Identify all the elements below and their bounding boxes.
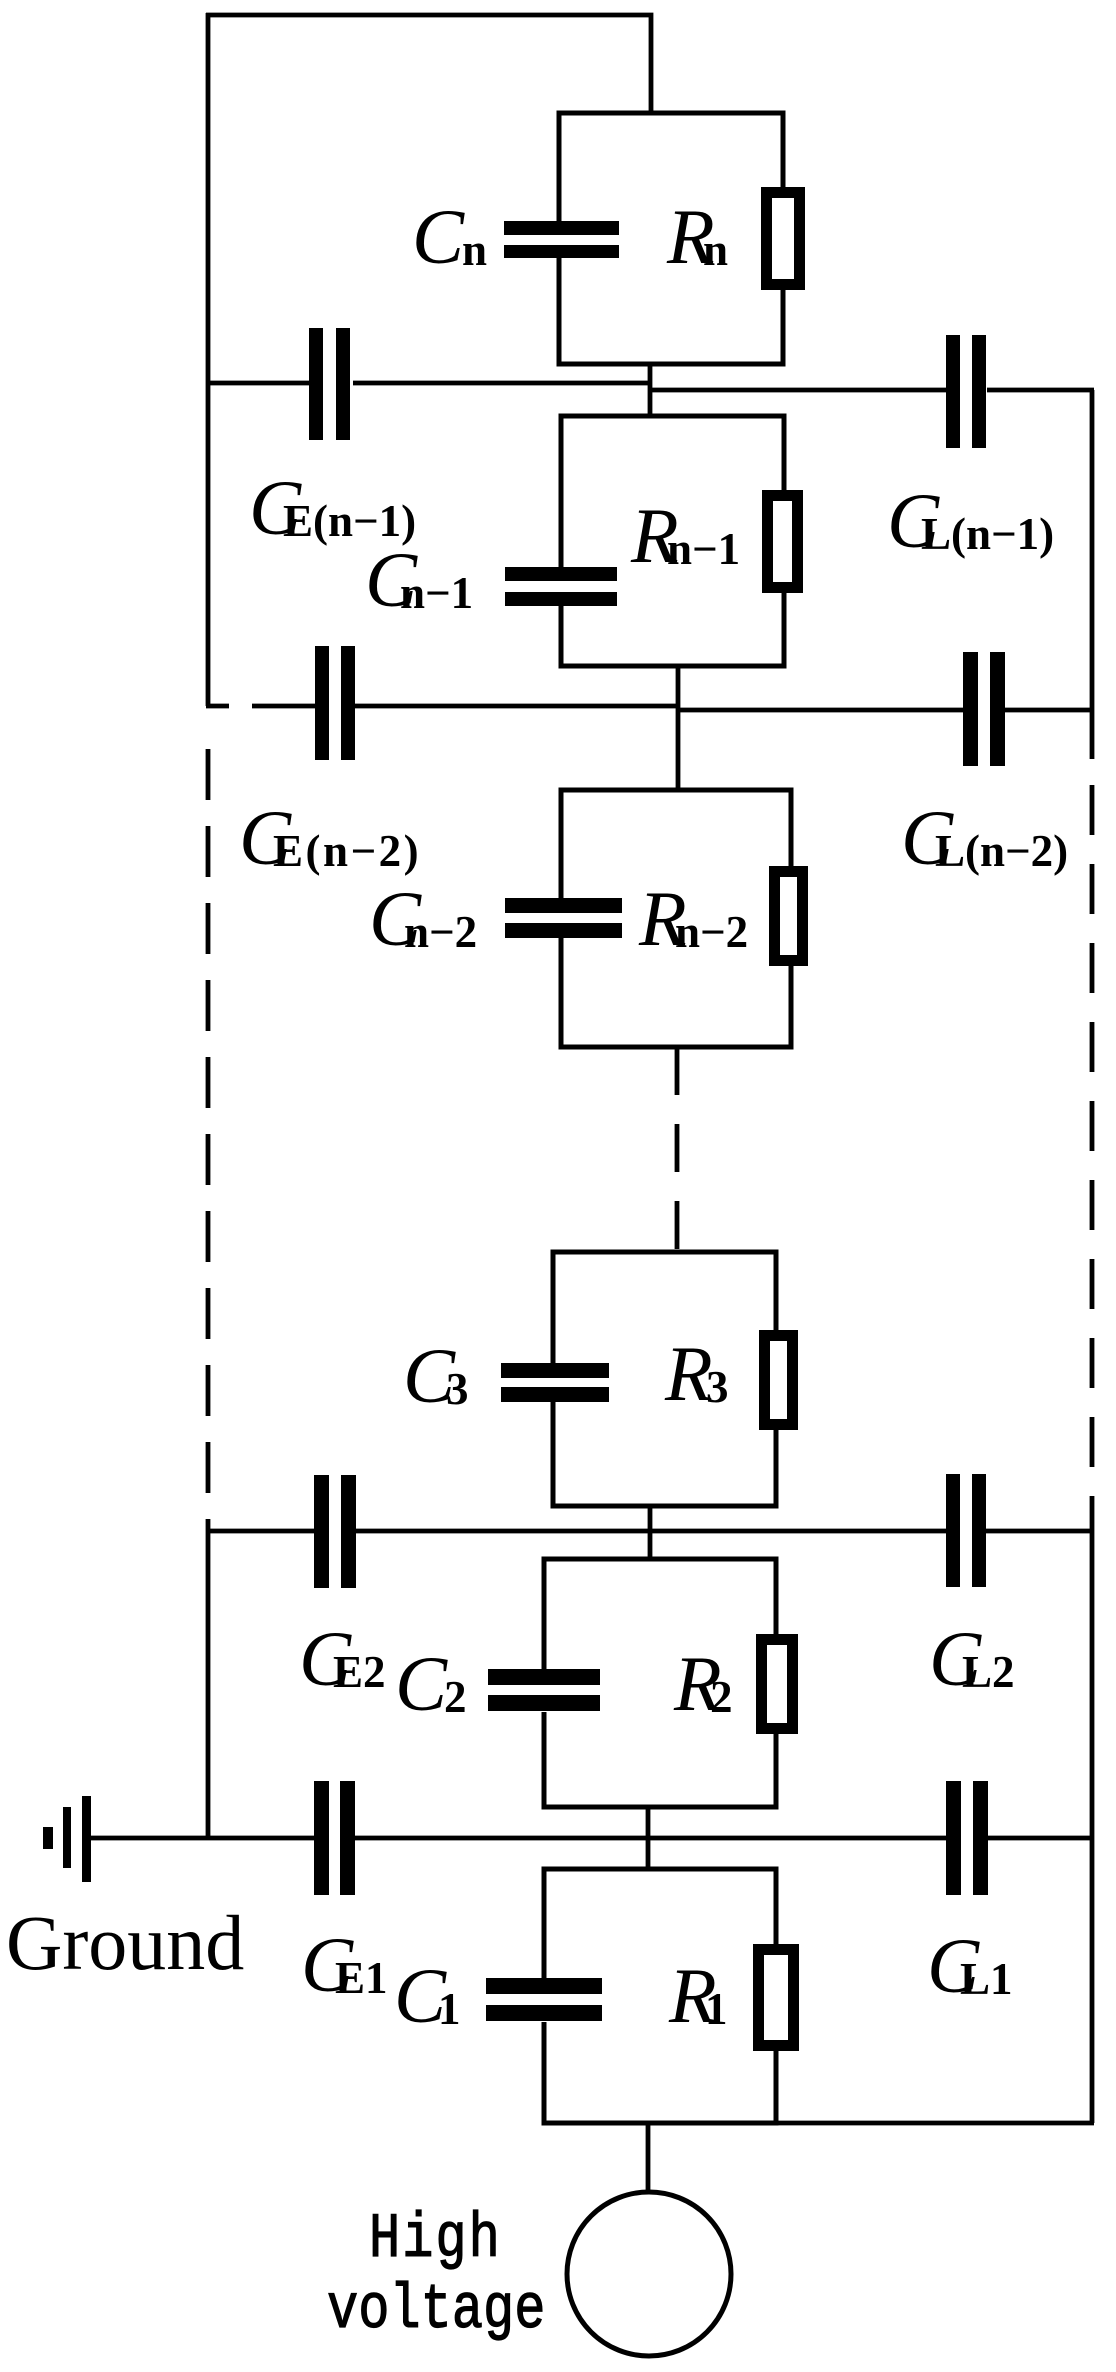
capacitor CE(n-2) plates [315, 646, 329, 760]
resistor R3 [765, 1336, 793, 1425]
svg-text:2: 2 [710, 1672, 733, 1722]
svg-text:n−2: n−2 [675, 907, 748, 957]
high voltage source circle [567, 2192, 731, 2356]
stage box Rn [559, 113, 783, 364]
wire right rail upper solid [1090, 390, 1095, 759]
svg-text:voltage: voltage [327, 2276, 545, 2347]
stage box Rn-1 [561, 416, 784, 666]
capacitor Cn-1 plates [505, 567, 617, 581]
resistor Rn [767, 193, 800, 285]
wire top loop from left rail to stage n [206, 13, 651, 706]
capacitor Cn plates [504, 221, 619, 235]
svg-text:L1: L1 [960, 1954, 1013, 2004]
wire dashed node between Rn-2 and R3 [675, 1047, 680, 1252]
wire R1 bottom extension to right rail [776, 2121, 1094, 2126]
resistor Rn-1 [768, 496, 798, 588]
svg-text:C: C [412, 193, 465, 280]
svg-text:High: High [369, 2205, 502, 2276]
stage box Rn-2 [561, 790, 791, 1047]
capacitor CE2 plates [314, 1475, 329, 1588]
stage box R3 [553, 1252, 776, 1506]
svg-text:n: n [462, 225, 487, 275]
svg-text:n−1: n−1 [400, 568, 473, 618]
wire row3 right to CL2 [650, 1529, 1094, 1534]
svg-text:1: 1 [705, 1984, 728, 2034]
svg-text:L2: L2 [962, 1647, 1015, 1697]
capacitor C3 plates [501, 1363, 609, 1378]
svg-text:n: n [703, 225, 728, 275]
wire node between R3 and R2 [648, 1506, 653, 1559]
wire node between R2 and R1 [646, 1807, 651, 1869]
wire left rail lower solid [206, 1531, 211, 1838]
resistor R2 [762, 1640, 793, 1729]
wire row4 right to CL1 [988, 1836, 1094, 1841]
svg-text:E2: E2 [333, 1647, 386, 1697]
wire row4 ground lead through CE1 [90, 1836, 946, 1841]
capacitor C2 plates [488, 1669, 600, 1685]
svg-text:L(n−1): L(n−1) [921, 509, 1054, 559]
wire row3 left to CE2 [206, 1529, 650, 1534]
capacitor CL2 plates [946, 1474, 960, 1587]
wire row1 right to CL(n-1) [650, 388, 1094, 393]
svg-text:3: 3 [446, 1364, 469, 1414]
wire row2 right to CL(n-2) [679, 708, 1094, 713]
capacitor C1 plates [486, 1978, 602, 1994]
svg-text:Ground: Ground [6, 1899, 244, 1986]
resistor R1 [759, 1950, 794, 2046]
svg-text:L(n−2): L(n−2) [935, 826, 1068, 876]
stage box R1 [544, 1869, 776, 2123]
capacitor CE1 plates [314, 1781, 329, 1895]
wire R1 bottom to high-voltage source [646, 2123, 651, 2196]
svg-text:3: 3 [706, 1362, 729, 1412]
capacitor Cn-2 plates [505, 898, 622, 913]
wire node between Rn and Rn-1 [648, 364, 653, 416]
capacitor CL(n-1) plates [946, 335, 960, 448]
wire left rail dashed (omitted stages) [206, 749, 211, 1531]
capacitor CL(n-2) plates [963, 652, 978, 766]
wire right rail dashed (omitted stages) [1090, 785, 1095, 1531]
resistor Rn-2 [775, 872, 803, 961]
svg-text:n−1: n−1 [667, 524, 740, 574]
svg-text:2: 2 [444, 1672, 467, 1722]
svg-text:n−2: n−2 [404, 907, 477, 957]
svg-text:E1: E1 [335, 1953, 388, 2003]
svg-text:C: C [395, 1640, 448, 1727]
svg-text:E(n−2): E(n−2) [273, 826, 421, 876]
capacitor CL1 plates [946, 1781, 961, 1895]
ground symbol bars [82, 1796, 91, 1882]
wire right rail lower solid [1090, 1531, 1095, 2123]
wire row1 left to CE(n-1) [206, 381, 650, 386]
wire row2 left to CE(n-2) [206, 704, 679, 709]
svg-text:1: 1 [438, 1984, 461, 2034]
capacitor CE(n-1) plates [309, 328, 323, 440]
stage box R2 [544, 1559, 776, 1807]
wire node between Rn-1 and Rn-2 [676, 664, 681, 790]
